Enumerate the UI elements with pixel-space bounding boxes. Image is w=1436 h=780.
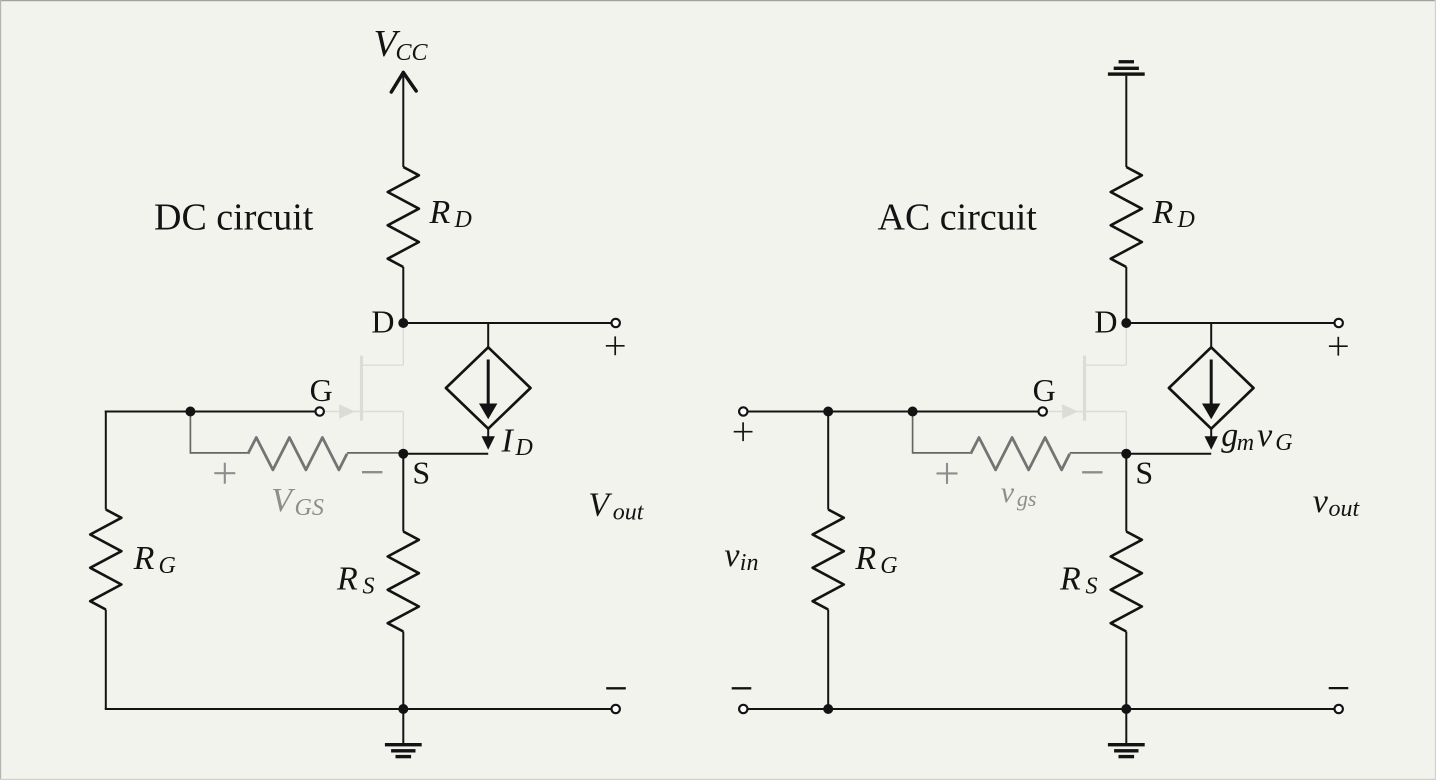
- minus sign of vgs (gray): [1082, 471, 1102, 473]
- wire left to gate (DC): [105, 411, 316, 413]
- svg-text:G: G: [1275, 430, 1292, 456]
- gray lead VGS resistor to node S (DC): [347, 452, 399, 454]
- plus sign at output (DC): [606, 336, 625, 355]
- plus sign of VGS (gray): [214, 463, 235, 484]
- svg-text:v: v: [1313, 483, 1329, 520]
- svg-text:S: S: [363, 574, 375, 600]
- svg-text:G: G: [159, 553, 176, 579]
- wire RD to node D (AC): [1125, 267, 1127, 323]
- output terminal + (DC): [612, 319, 620, 327]
- output terminal - (AC): [1335, 705, 1343, 713]
- node G label (DC): [310, 372, 333, 408]
- resistor RS (DC): [388, 532, 419, 632]
- gate terminal G (DC): [316, 407, 324, 415]
- svg-text:D: D: [454, 207, 472, 233]
- current source output arrow (DC): [482, 429, 495, 450]
- label gmvG: [1221, 417, 1292, 456]
- left vertical wire lower (DC): [105, 610, 107, 710]
- resistor RG (DC): [90, 510, 121, 610]
- label RS (DC): [336, 561, 375, 600]
- node G label (AC): [1033, 372, 1056, 408]
- bottom rail wire (DC): [105, 708, 611, 710]
- resistor VGS (DC, gray): [248, 438, 347, 470]
- input terminal + (AC): [739, 407, 747, 415]
- resistor RD (DC): [388, 167, 419, 267]
- svg-text:G: G: [880, 553, 897, 579]
- svg-text:v: v: [1001, 476, 1015, 509]
- wire node S to RS (AC): [1125, 454, 1127, 532]
- svg-text:S: S: [1135, 455, 1153, 491]
- bottom junction dot RG (AC): [823, 704, 833, 714]
- wire node D to output terminal (AC): [1126, 322, 1334, 324]
- label vin (AC): [724, 537, 758, 576]
- resistor RG (AC): [813, 510, 844, 610]
- junction dot at RG top (AC): [823, 407, 833, 417]
- svg-text:g: g: [1221, 417, 1238, 454]
- svg-text:CC: CC: [396, 40, 429, 66]
- gate terminal G (AC): [1039, 407, 1047, 415]
- gray lead junction to VGS resistor (DC): [190, 413, 248, 454]
- title: DC circuit: [154, 197, 314, 239]
- dependent current source ID (DC, diamond): [446, 347, 531, 428]
- svg-text:D: D: [371, 303, 394, 339]
- node S label (AC): [1135, 455, 1153, 491]
- svg-text:R: R: [1059, 561, 1081, 598]
- wire RS to bottom rail (DC): [402, 632, 404, 710]
- junction dot at gate wire (DC): [185, 407, 195, 417]
- label RG (DC): [133, 540, 176, 579]
- bottom junction dot (DC): [398, 704, 408, 714]
- node D label (DC): [371, 303, 394, 339]
- svg-text:out: out: [1329, 496, 1361, 522]
- power supply VCC arrow up: [391, 73, 416, 168]
- wire RG column (AC): [827, 411, 829, 510]
- svg-text:AC circuit: AC circuit: [878, 197, 1038, 239]
- power supply VCC label: [374, 23, 429, 66]
- dependent current source gmvG (AC, diamond): [1169, 347, 1254, 428]
- gray lead junction to vgs resistor (AC): [913, 413, 971, 454]
- wire top ground to RD (AC): [1125, 76, 1127, 167]
- minus sign at output (AC): [1329, 687, 1349, 689]
- svg-text:R: R: [854, 540, 876, 577]
- label VGS (gray): [271, 482, 324, 521]
- svg-text:I: I: [501, 422, 515, 459]
- bottom rail wire (AC): [748, 708, 1335, 710]
- node S junction dot (DC): [398, 449, 408, 459]
- svg-text:m: m: [1237, 430, 1254, 456]
- output terminal + (AC): [1335, 319, 1343, 327]
- label vgs (gray): [1001, 476, 1037, 511]
- wire input to gate (AC): [748, 411, 1039, 413]
- svg-text:DC circuit: DC circuit: [154, 197, 314, 239]
- wire RD to node D (DC): [402, 267, 404, 323]
- svg-text:GS: GS: [295, 495, 324, 521]
- label ID: [501, 422, 533, 461]
- node D junction dot (DC): [398, 318, 408, 328]
- svg-text:in: in: [740, 550, 759, 576]
- wire to current source top (AC): [1210, 323, 1212, 347]
- label RS (AC): [1059, 561, 1098, 600]
- minus sign of VGS (gray): [362, 471, 382, 473]
- node D label (AC): [1094, 303, 1117, 339]
- minus sign at output (DC): [606, 687, 626, 689]
- plus sign at input (AC): [734, 422, 753, 441]
- svg-text:v: v: [724, 537, 740, 574]
- output terminal - (DC): [612, 705, 620, 713]
- svg-text:R: R: [1152, 194, 1174, 231]
- wire to current source top (DC): [487, 323, 489, 347]
- svg-text:G: G: [1033, 372, 1056, 408]
- left vertical wire upper (DC): [105, 411, 107, 510]
- border frame: [0, 0, 1436, 2]
- transistor M1 (AC, faint nmos): [1048, 323, 1127, 450]
- ground symbol at top (AC): [1108, 60, 1145, 76]
- wire RG to bottom rail (AC): [827, 610, 829, 710]
- svg-text:D: D: [1094, 303, 1117, 339]
- label RG (AC): [854, 540, 897, 579]
- plus sign of vgs (gray): [937, 463, 958, 484]
- svg-text:G: G: [310, 372, 333, 408]
- ground symbol (DC): [385, 709, 422, 758]
- svg-text:D: D: [1177, 207, 1195, 233]
- wire node D to output terminal (DC): [403, 322, 611, 324]
- svg-text:S: S: [412, 455, 430, 491]
- plus sign at output (AC): [1329, 337, 1348, 356]
- svg-text:S: S: [1086, 574, 1098, 600]
- node D junction dot (AC): [1121, 318, 1131, 328]
- svg-text:R: R: [429, 194, 451, 231]
- wire node S to current source (DC): [403, 453, 488, 455]
- wire RS to bottom rail (AC): [1125, 632, 1127, 710]
- svg-text:out: out: [613, 500, 645, 526]
- wire node S to current source (AC): [1126, 453, 1211, 455]
- gray lead vgs resistor to node S (AC): [1070, 452, 1123, 454]
- label vout (AC): [1313, 483, 1361, 522]
- input terminal - (AC): [739, 705, 747, 713]
- label Vout (DC): [588, 487, 645, 526]
- svg-text:R: R: [133, 540, 155, 577]
- title: AC circuit: [878, 197, 1038, 239]
- label RD (AC): [1152, 194, 1195, 233]
- node S junction dot (AC): [1121, 449, 1131, 459]
- svg-text:D: D: [515, 435, 533, 461]
- resistor RD (AC): [1111, 167, 1142, 267]
- svg-text:gs: gs: [1017, 486, 1037, 511]
- bottom junction dot RS (AC): [1121, 704, 1131, 714]
- svg-text:v: v: [1257, 417, 1273, 454]
- transistor M1 (DC, faint nmos): [325, 323, 404, 450]
- node S label (DC): [412, 455, 430, 491]
- label RD (DC): [429, 194, 472, 233]
- junction dot at vgs branch (AC): [908, 407, 918, 417]
- wire node S to RS (DC): [402, 454, 404, 532]
- minus sign at input (AC): [732, 687, 752, 689]
- svg-text:R: R: [336, 561, 358, 598]
- current source output arrow (AC): [1205, 429, 1218, 450]
- ground symbol (AC): [1108, 709, 1145, 758]
- resistor RS (AC): [1111, 532, 1142, 632]
- resistor vgs (AC, gray): [971, 438, 1070, 470]
